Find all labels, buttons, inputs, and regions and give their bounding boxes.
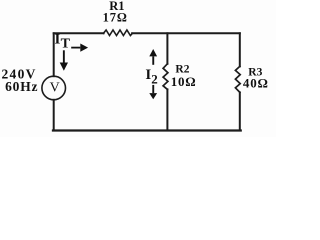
label 240V (source voltage)	[2, 67, 37, 82]
label 17Ω (value of R1)	[103, 11, 128, 25]
voltage source V1 (240V 60Hz)	[42, 76, 66, 100]
wire middle branch lower	[166, 89, 168, 130]
resistor R3	[235, 66, 240, 92]
label 60Hz (source frequency)	[5, 79, 38, 94]
label 10Ω (value of R2)	[171, 74, 197, 89]
svg-text:T: T	[61, 36, 71, 51]
current arrow I2 up (above label)	[149, 49, 157, 65]
label IT	[55, 31, 71, 51]
svg-text:I: I	[55, 31, 61, 47]
svg-text:40Ω: 40Ω	[243, 75, 269, 90]
wire left upper (source to top rail)	[53, 33, 55, 76]
label R1	[109, 0, 124, 13]
wire left lower (source to bottom rail)	[53, 100, 55, 131]
current arrow IT (rightward along top rail)	[71, 44, 88, 52]
current arrow IT (downward into source branch)	[60, 50, 68, 71]
svg-text:2: 2	[151, 72, 158, 87]
wire top (node A: top rail)	[54, 32, 240, 34]
resistor R2	[163, 64, 168, 90]
wire middle branch upper	[166, 33, 168, 64]
wire right lower	[239, 92, 241, 130]
wire right upper	[239, 33, 241, 66]
label V (inside source circle)	[50, 81, 60, 96]
svg-text:60Hz: 60Hz	[5, 79, 38, 94]
svg-text:10Ω: 10Ω	[171, 74, 197, 89]
label I2	[145, 67, 157, 87]
label R3	[248, 66, 262, 78]
label 40Ω (value of R3)	[243, 75, 269, 90]
wire bottom (node B: bottom rail)	[53, 129, 241, 131]
current arrow I2 down (below label)	[149, 85, 157, 99]
resistor R1	[103, 30, 132, 36]
svg-text:17Ω: 17Ω	[103, 11, 128, 25]
svg-text:V: V	[50, 81, 60, 96]
label R2	[175, 64, 189, 76]
